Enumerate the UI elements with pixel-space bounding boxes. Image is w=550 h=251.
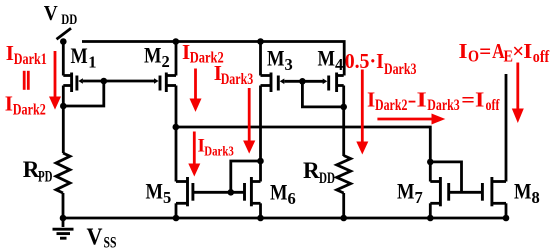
transistor M2 bbox=[154, 73, 176, 93]
wire RPD to bottom rail bbox=[62, 193, 65, 218]
wire gate tie step up to M6 drain bbox=[231, 161, 261, 192]
current label 0.5 IDark3 bbox=[345, 49, 417, 78]
parallel sign between IDark1 and IDark2 bbox=[24, 71, 28, 90]
current arrow IDark1-IDark2 left bbox=[49, 51, 61, 110]
current arrow Ioff to M7 bbox=[377, 114, 445, 125]
transistor M6 bbox=[245, 177, 261, 206]
transistor M3 bbox=[261, 73, 285, 93]
wire bottom rail bbox=[63, 217, 506, 220]
svg-text:O: O bbox=[468, 47, 479, 66]
wire gate tie step to M1 drain bbox=[63, 81, 104, 106]
svg-text:I: I bbox=[459, 39, 468, 63]
node M1 gate tie dot bbox=[101, 78, 108, 85]
node M8 bottom rail dot bbox=[503, 215, 510, 222]
label RDD bbox=[303, 158, 335, 187]
transistor M1 bbox=[63, 73, 83, 93]
wire M7-M8 gate rail bbox=[449, 191, 483, 194]
label RPD bbox=[23, 157, 53, 186]
current label IDark2 left bbox=[5, 91, 46, 118]
transistor M4 bbox=[323, 73, 344, 93]
transistor M7 bbox=[430, 177, 448, 206]
wire M3 gate rail to M4 bbox=[284, 80, 323, 83]
wire VDD to M1 source bbox=[62, 42, 65, 76]
label M7 bbox=[397, 179, 423, 208]
svg-text:8: 8 bbox=[532, 188, 540, 207]
node M5 source rail dot bbox=[173, 215, 180, 222]
wire M3 source to rail bbox=[259, 42, 262, 76]
wire M2 drain to M5 drain bbox=[175, 127, 178, 182]
svg-text:=I: =I bbox=[461, 87, 484, 111]
current label IO=AExIoff bbox=[459, 39, 550, 66]
wire M1 gate rail to M2 bbox=[83, 80, 154, 83]
svg-text:M: M bbox=[267, 46, 285, 71]
svg-text:3: 3 bbox=[285, 55, 293, 74]
wire M4 drain down through mid rail to RDD bbox=[342, 86, 345, 157]
svg-text:6: 6 bbox=[288, 189, 296, 208]
wire RDD to bottom rail bbox=[342, 193, 345, 218]
svg-text:Dark3: Dark3 bbox=[221, 71, 254, 88]
current label IDark3 top bbox=[214, 61, 253, 88]
svg-text:off: off bbox=[486, 97, 501, 114]
current arrow IDark2 mid bbox=[190, 69, 202, 112]
svg-text:Dark2: Dark2 bbox=[13, 101, 46, 118]
wire M8 source to bottom rail bbox=[505, 203, 508, 218]
svg-text:M: M bbox=[397, 179, 415, 204]
node M5-M6 gate tie dot bbox=[228, 189, 235, 196]
svg-text:M: M bbox=[514, 178, 532, 203]
svg-text:R: R bbox=[303, 158, 320, 183]
label M8 bbox=[514, 178, 540, 207]
svg-text:M: M bbox=[146, 178, 164, 203]
svg-text:I: I bbox=[367, 87, 375, 111]
label M3 bbox=[267, 46, 293, 75]
svg-text:4: 4 bbox=[335, 55, 343, 74]
node M6 drain tie dot bbox=[257, 158, 264, 165]
label M5 bbox=[146, 178, 172, 207]
wire M7 source to bottom rail bbox=[429, 203, 432, 218]
svg-text:V: V bbox=[44, 1, 58, 25]
svg-text:7: 7 bbox=[415, 188, 423, 207]
label M4 bbox=[318, 46, 344, 75]
svg-text:I: I bbox=[523, 39, 532, 63]
svg-text:I: I bbox=[5, 91, 13, 115]
wire M7 gate tie step bbox=[430, 162, 461, 192]
wire M8 drain output up bbox=[505, 74, 508, 182]
wire mid rail node to M7 branch bbox=[176, 127, 430, 182]
VDD switch diagonal stroke bbox=[57, 28, 72, 39]
current label IDark3 mid bbox=[198, 136, 234, 160]
svg-text:DD: DD bbox=[61, 12, 77, 28]
svg-text:Dark1: Dark1 bbox=[14, 51, 47, 68]
current label IDark2-IDark3=Ioff bbox=[367, 87, 500, 114]
current label IDark2 mid bbox=[182, 40, 224, 67]
svg-text:-I: -I bbox=[408, 87, 427, 111]
wire M5-M6 gate rail bbox=[193, 191, 245, 194]
svg-text:M: M bbox=[144, 42, 162, 67]
ground symbol bbox=[53, 218, 74, 238]
svg-text:off: off bbox=[533, 47, 550, 66]
wire M3 drain down to M6 drain bbox=[259, 86, 262, 182]
svg-text:Dark3: Dark3 bbox=[204, 144, 234, 159]
node mid rail left dot bbox=[173, 124, 180, 131]
svg-text:M: M bbox=[71, 43, 88, 68]
svg-text:5: 5 bbox=[163, 188, 171, 207]
svg-text:Dark2: Dark2 bbox=[375, 97, 407, 114]
svg-text:PD: PD bbox=[38, 168, 53, 185]
label M6 bbox=[270, 180, 296, 209]
node M4 drain tie dot bbox=[340, 104, 347, 111]
svg-text:M: M bbox=[318, 46, 336, 71]
wire M2 drain to mid node bbox=[175, 86, 178, 128]
resistor RPD bbox=[56, 153, 70, 193]
current arrow IDark3 top bbox=[243, 88, 255, 154]
svg-text:0.5·I: 0.5·I bbox=[345, 49, 384, 73]
svg-text:V: V bbox=[87, 223, 103, 250]
current arrow IO output bbox=[512, 63, 524, 124]
node M3-M4 gate tie dot bbox=[299, 78, 306, 85]
node M2 source dot on top rail bbox=[173, 38, 180, 45]
node VDD label bbox=[44, 1, 78, 28]
wire M2 source to rail bbox=[175, 42, 178, 76]
transistor M8 bbox=[482, 177, 506, 206]
svg-text:I: I bbox=[6, 41, 14, 65]
svg-text:SS: SS bbox=[104, 234, 117, 251]
wire gate tie step to M4 drain bbox=[302, 81, 343, 107]
current label IDark1 bbox=[6, 41, 47, 68]
wire M5 source to bottom rail bbox=[175, 203, 178, 218]
node ground junction dot bbox=[60, 215, 67, 222]
svg-text:=: = bbox=[479, 39, 491, 63]
transistor M5 bbox=[176, 177, 193, 206]
label M1 bbox=[71, 43, 97, 72]
node VDD junction dot bbox=[60, 38, 67, 45]
current arrow 0.5 IDark3 bbox=[356, 70, 368, 155]
node VSS label bbox=[87, 223, 117, 251]
svg-text:M: M bbox=[270, 180, 288, 205]
current arrow IDark3 mid bbox=[188, 132, 200, 177]
wire M1 drain down to RPD bbox=[62, 86, 65, 154]
wire top supply rail bbox=[82, 42, 344, 76]
wire M6 source to bottom rail bbox=[259, 203, 262, 218]
node M1 drain tie dot bbox=[60, 103, 67, 110]
label M2 bbox=[144, 42, 170, 71]
node M6 source rail dot bbox=[257, 215, 264, 222]
svg-text:DD: DD bbox=[319, 170, 335, 187]
svg-text:Dark3: Dark3 bbox=[427, 97, 459, 114]
svg-text:Dark3: Dark3 bbox=[384, 61, 416, 78]
node RDD bottom rail dot bbox=[340, 215, 347, 222]
svg-text:1: 1 bbox=[88, 53, 96, 72]
svg-text:2: 2 bbox=[162, 52, 170, 71]
node M7 bottom rail dot bbox=[427, 215, 434, 222]
node M7 drain tie dot bbox=[427, 159, 434, 166]
resistor RDD bbox=[337, 156, 351, 194]
node M3 source dot on top rail bbox=[257, 38, 264, 45]
